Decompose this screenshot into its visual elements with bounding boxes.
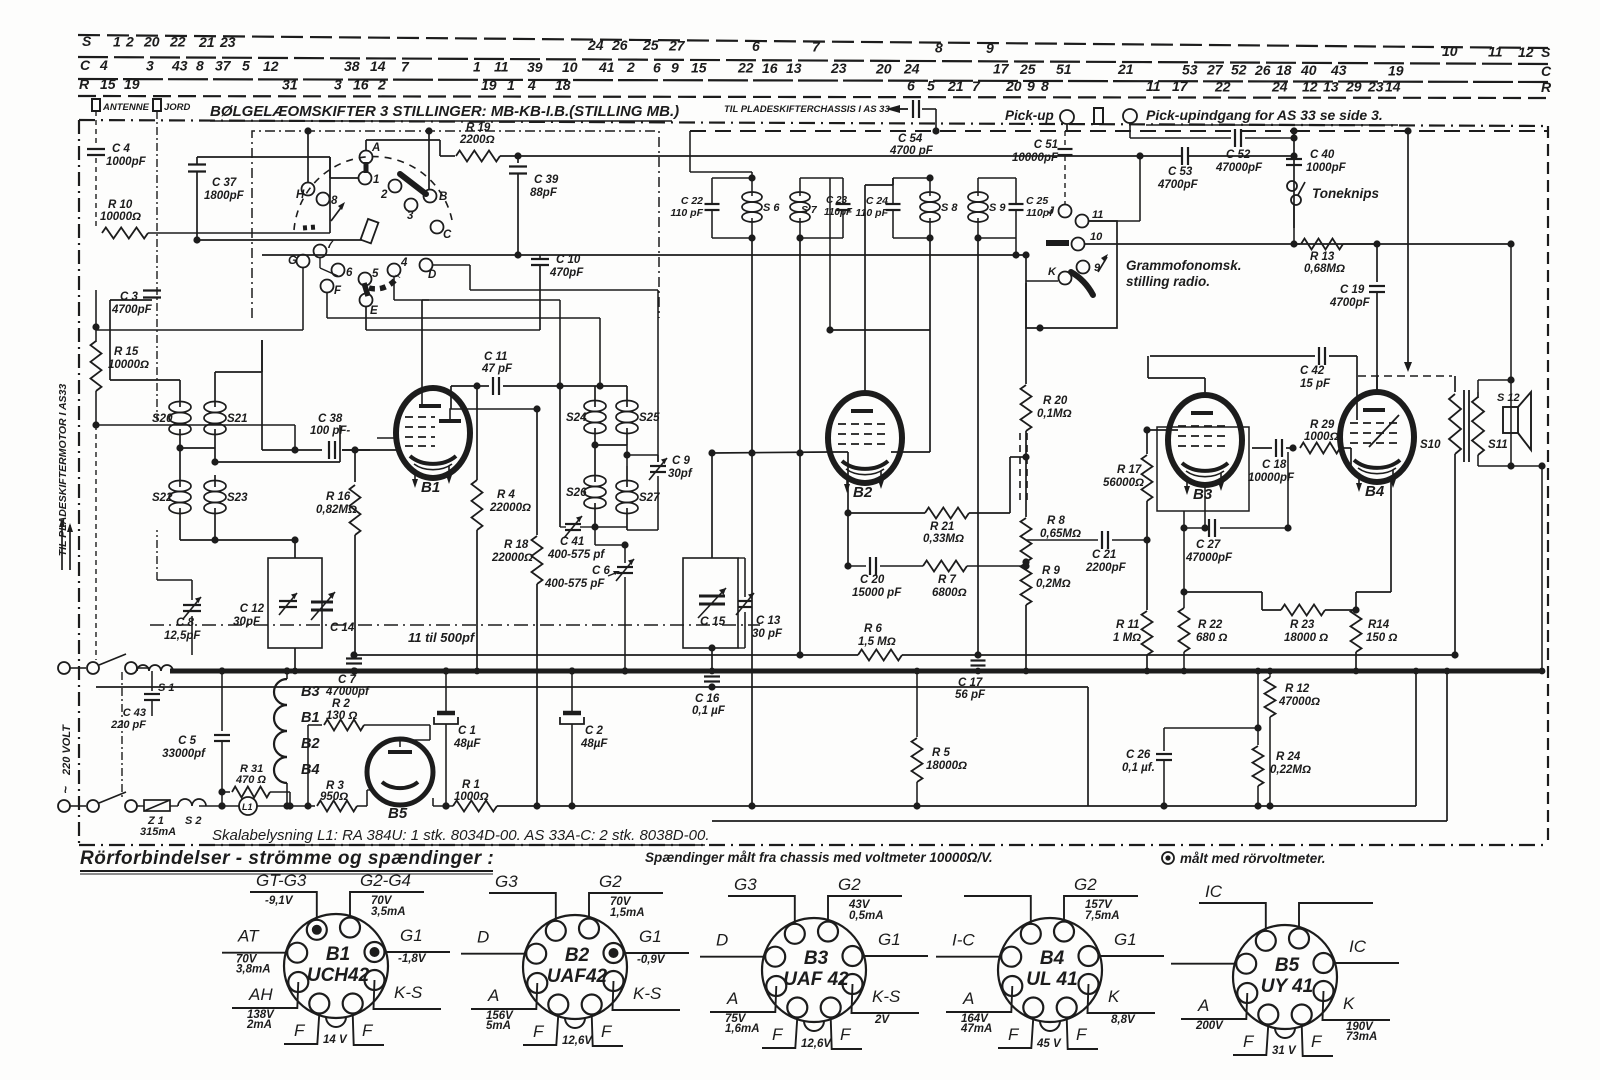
svg-text:R 2: R 2 <box>332 698 351 710</box>
svg-text:G: G <box>288 255 297 267</box>
svg-text:4700pF: 4700pF <box>111 304 153 316</box>
svg-text:F: F <box>1076 1025 1088 1044</box>
svg-text:52: 52 <box>1231 62 1247 78</box>
svg-text:22: 22 <box>1214 78 1231 94</box>
svg-text:14: 14 <box>370 58 386 74</box>
capacitor C17 <box>955 661 986 702</box>
svg-text:F: F <box>1311 1032 1323 1051</box>
capacitor C14 variable <box>311 592 355 634</box>
coil S22 <box>152 475 191 540</box>
svg-text:25: 25 <box>1019 61 1036 77</box>
note voltmeter <box>645 850 993 865</box>
wire heater chain <box>283 667 290 809</box>
resistor R2 <box>304 698 430 810</box>
svg-text:25: 25 <box>642 37 659 53</box>
svg-text:Pick-up: Pick-up <box>1005 108 1054 123</box>
gram switch contact J <box>1048 205 1072 218</box>
wire S22 top <box>179 448 181 475</box>
svg-text:R 9: R 9 <box>1042 565 1061 577</box>
svg-text:2V: 2V <box>874 1014 890 1026</box>
svg-text:stilling radio.: stilling radio. <box>1126 274 1210 289</box>
svg-text:6: 6 <box>907 78 915 94</box>
capacitor C52 <box>1158 129 1298 174</box>
capacitor C39 <box>509 156 559 199</box>
svg-text:1 MΩ: 1 MΩ <box>1113 632 1141 644</box>
svg-text:56000Ω: 56000Ω <box>1103 477 1144 489</box>
wire C52 vert <box>1290 127 1297 228</box>
svg-text:2: 2 <box>626 59 635 75</box>
node R15 top <box>92 323 99 330</box>
svg-text:R 4: R 4 <box>497 489 516 501</box>
svg-text:R 24: R 24 <box>1276 751 1301 763</box>
capacitor C7 <box>325 659 370 699</box>
resistor R15 <box>91 341 149 391</box>
svg-text:1,6mA: 1,6mA <box>725 1023 760 1035</box>
svg-text:E: E <box>370 305 378 317</box>
wire S26 bottom to bus <box>595 527 625 545</box>
wire S9 box <box>974 178 1016 242</box>
svg-text:1: 1 <box>113 33 121 49</box>
fuse Z1 <box>140 800 178 838</box>
capacitor C37 <box>188 165 245 203</box>
svg-text:R 21: R 21 <box>930 521 954 533</box>
tube B1 <box>396 388 470 496</box>
svg-text:R 22: R 22 <box>1198 619 1223 631</box>
svg-text:10000pF: 10000pF <box>1012 152 1059 164</box>
wire speaker leads <box>1478 244 1515 466</box>
title wave switch <box>210 103 679 121</box>
svg-text:19: 19 <box>124 76 140 92</box>
capacitor C41 trimmer <box>547 516 605 561</box>
svg-text:23: 23 <box>219 34 236 50</box>
svg-text:D: D <box>716 931 728 950</box>
svg-text:2200pF: 2200pF <box>1085 562 1127 574</box>
svg-text:21: 21 <box>1117 61 1134 77</box>
svg-text:3: 3 <box>146 57 154 73</box>
heater arc B2 <box>274 731 320 757</box>
capacitor C1 <box>434 667 481 809</box>
node B2 cath junction <box>844 562 851 569</box>
wave switch rotor rect <box>361 219 379 243</box>
svg-text:C 18: C 18 <box>1262 459 1287 471</box>
svg-text:G2-G4: G2-G4 <box>360 871 411 890</box>
svg-text:K-S: K-S <box>872 987 901 1006</box>
svg-text:TIL PLADESKIFTERMOTOR I AS33: TIL PLADESKIFTERMOTOR I AS33 <box>57 384 69 557</box>
svg-text:200V: 200V <box>1195 1020 1224 1032</box>
gram switch contact 10 <box>1072 231 1104 251</box>
resistor R22 <box>1179 511 1228 671</box>
svg-text:9: 9 <box>986 40 994 56</box>
capacitor C6 trimmer <box>544 559 634 590</box>
svg-text:G1: G1 <box>1114 930 1137 949</box>
heater arc B3 <box>274 679 320 705</box>
node gram bottom <box>1036 324 1043 331</box>
svg-text:12: 12 <box>1518 44 1534 60</box>
svg-text:6: 6 <box>752 38 760 54</box>
svg-text:7,5mA: 7,5mA <box>1085 910 1120 922</box>
wire S25 top <box>560 386 627 527</box>
svg-text:43: 43 <box>1330 62 1347 78</box>
svg-text:31 V: 31 V <box>1272 1045 1297 1057</box>
svg-text:B3: B3 <box>804 948 829 969</box>
svg-text:220 pF: 220 pF <box>110 719 146 731</box>
svg-text:3,8mA: 3,8mA <box>236 964 271 976</box>
gram switch contact 11 <box>1076 209 1104 228</box>
wire B4 cath down <box>1356 478 1391 592</box>
svg-text:S 8: S 8 <box>941 202 958 214</box>
tube socket B2 UAF42 <box>461 872 689 1047</box>
svg-text:Toneknips: Toneknips <box>1312 186 1379 201</box>
toneknips switch <box>1287 181 1379 205</box>
svg-text:S 7: S 7 <box>801 204 818 216</box>
svg-text:GT-G3: GT-G3 <box>256 871 307 890</box>
svg-text:C 39: C 39 <box>534 174 559 186</box>
svg-text:C 11: C 11 <box>484 351 507 363</box>
capacitor C20 <box>848 513 923 599</box>
svg-text:110 pF: 110 pF <box>671 207 704 219</box>
svg-text:19: 19 <box>1388 62 1404 78</box>
svg-text:1000pF: 1000pF <box>1306 162 1347 174</box>
svg-text:110pF: 110pF <box>824 207 853 218</box>
svg-text:S: S <box>82 33 92 49</box>
wire pickup branch down <box>1130 123 1158 138</box>
svg-text:5: 5 <box>927 78 935 94</box>
svg-text:8: 8 <box>935 39 943 55</box>
svg-text:H: H <box>296 189 305 201</box>
svg-text:1: 1 <box>473 59 481 75</box>
svg-text:UCH42: UCH42 <box>307 965 370 986</box>
wave switch rotor bar A-1 <box>364 162 369 173</box>
svg-text:7: 7 <box>972 78 981 94</box>
capacitor C16 <box>692 677 726 718</box>
wire C41 bus <box>560 523 627 530</box>
capacitor C18 <box>1248 439 1297 484</box>
pickup plug symbol <box>1094 108 1103 124</box>
svg-text:45 V: 45 V <box>1036 1038 1062 1050</box>
wire B4 anode up <box>1376 376 1378 392</box>
capacitor C23 <box>824 178 853 238</box>
chassis border left <box>78 120 80 845</box>
svg-text:UL 41: UL 41 <box>1026 969 1077 990</box>
svg-text:B2: B2 <box>565 945 590 966</box>
svg-text:B5: B5 <box>1275 955 1300 976</box>
antenna terminal <box>92 99 150 113</box>
svg-text:C 5: C 5 <box>178 735 197 747</box>
wire S20 top <box>110 300 180 395</box>
svg-text:C 14: C 14 <box>330 622 355 634</box>
mains plug top <box>58 662 99 674</box>
svg-text:3: 3 <box>407 210 414 222</box>
svg-text:R 18: R 18 <box>504 539 529 551</box>
coil S27 <box>616 466 660 530</box>
svg-text:C 9: C 9 <box>672 455 691 467</box>
wire pickup dashed bus <box>690 130 1294 132</box>
svg-text:12,6V: 12,6V <box>562 1035 593 1047</box>
wire bottom rail2 <box>712 673 1447 821</box>
tuning box C12 C14 <box>268 558 322 648</box>
label 11 til 500pf <box>408 630 476 645</box>
svg-text:C 51: C 51 <box>1034 139 1058 151</box>
wire top right vert <box>1404 127 1412 372</box>
dial scale row C numbers <box>80 57 1552 79</box>
svg-text:7: 7 <box>812 38 821 54</box>
svg-text:F: F <box>334 285 342 297</box>
resistor R16 <box>316 450 361 656</box>
svg-text:1,5mA: 1,5mA <box>610 907 645 919</box>
lamp L1 <box>239 797 257 815</box>
svg-text:R 29: R 29 <box>1310 419 1335 431</box>
wire S11 to border <box>1478 455 1546 671</box>
svg-text:B4: B4 <box>1040 948 1065 969</box>
svg-text:0,22MΩ: 0,22MΩ <box>1270 764 1311 776</box>
svg-text:BØLGELÆOMSKIFTER 3 STILLINGER:: BØLGELÆOMSKIFTER 3 STILLINGER: MB-KB-I.B… <box>210 103 679 120</box>
svg-text:47000pf: 47000pf <box>325 686 370 698</box>
svg-text:C: C <box>80 57 91 73</box>
wire 11 right <box>1089 152 1144 221</box>
capacitor C15 variable <box>698 588 726 628</box>
svg-text:9: 9 <box>671 59 679 75</box>
svg-text:12: 12 <box>1302 78 1318 94</box>
wire S7 box <box>796 178 843 242</box>
wire R19 to C39 <box>500 152 1181 159</box>
heading rorforbindelser <box>80 848 494 874</box>
wire 10 right <box>1085 240 1515 247</box>
svg-text:29: 29 <box>1345 79 1362 95</box>
wire C10 bus <box>262 254 1026 256</box>
resistor R3 <box>308 780 367 812</box>
arrow up pladeskiftermotor <box>59 518 73 570</box>
svg-text:21: 21 <box>198 34 215 50</box>
svg-text:S20: S20 <box>152 413 173 425</box>
tube B3 <box>1168 395 1242 503</box>
capacitor C22 <box>671 178 720 238</box>
wire S8 bottom drop <box>929 238 931 330</box>
svg-text:47 pF: 47 pF <box>481 363 513 375</box>
capacitor C9 trimmer <box>649 455 693 480</box>
svg-text:F: F <box>533 1022 545 1041</box>
svg-text:315mA: 315mA <box>140 826 176 838</box>
wire B2 grid <box>712 452 829 453</box>
svg-text:950Ω: 950Ω <box>320 791 348 803</box>
svg-text:Skalabelysning L1: RA 384U: 1: Skalabelysning L1: RA 384U: 1 stk. 8034D… <box>212 827 710 844</box>
svg-text:4700pF: 4700pF <box>1329 297 1371 309</box>
wire S8 box <box>893 174 934 241</box>
dial scale ruler line 1 <box>78 35 1548 48</box>
svg-text:ANTENNE: ANTENNE <box>102 102 150 113</box>
gram rotor bar <box>1046 240 1069 246</box>
coil S1 <box>137 665 175 694</box>
resistor R17 <box>1103 426 1153 540</box>
capacitor C24 <box>856 178 901 238</box>
svg-text:D: D <box>428 269 436 281</box>
svg-text:Pick-upindgang for AS 33 se si: Pick-upindgang for AS 33 se side 3. <box>1146 107 1383 123</box>
gram rotor wedge <box>1071 272 1093 295</box>
svg-text:14 V: 14 V <box>323 1034 348 1046</box>
svg-text:B: B <box>439 191 447 203</box>
wire B1 grid left <box>377 437 397 439</box>
svg-text:A: A <box>487 986 499 1005</box>
resistor R21 <box>848 453 1030 545</box>
resistor R19 <box>456 122 500 162</box>
node S24 bottom <box>591 441 627 448</box>
svg-text:R 6: R 6 <box>864 623 883 635</box>
coil S6 <box>742 178 780 238</box>
svg-text:26: 26 <box>611 37 628 53</box>
mains plug bottom <box>58 800 99 812</box>
svg-text:6800Ω: 6800Ω <box>932 587 967 599</box>
coil S2 <box>178 799 206 827</box>
svg-text:C 10: C 10 <box>556 254 581 266</box>
svg-text:9: 9 <box>1027 78 1035 94</box>
svg-text:0,1 µf.: 0,1 µf. <box>1122 762 1155 774</box>
svg-text:24: 24 <box>903 60 920 76</box>
svg-text:7: 7 <box>401 58 410 74</box>
resistor R1 <box>453 779 497 812</box>
svg-text:4: 4 <box>527 77 536 93</box>
coil S7 <box>790 178 818 238</box>
gram switch contact K <box>1048 266 1072 285</box>
chassis border right <box>1547 126 1549 845</box>
pickup jack <box>1060 110 1074 131</box>
svg-text:K: K <box>1108 987 1120 1006</box>
label til pladeskiftermotor <box>57 384 69 557</box>
svg-text:Spændinger målt fra chassis: Spændinger målt fra chassis med voltmete… <box>645 850 993 865</box>
svg-text:6: 6 <box>653 59 661 75</box>
svg-text:47000pF: 47000pF <box>1185 552 1233 564</box>
wave switch contact labels <box>288 142 452 317</box>
svg-text:88pF: 88pF <box>530 187 558 199</box>
svg-text:Rörforbindelser - strömme og: Rörforbindelser - strömme og spændinger … <box>80 848 494 869</box>
gram switch box <box>1026 221 1117 328</box>
wire tuning box bottom <box>294 648 296 671</box>
svg-text:0,68MΩ: 0,68MΩ <box>1304 263 1345 275</box>
svg-text:~: ~ <box>58 786 73 794</box>
svg-text:21: 21 <box>947 78 964 94</box>
svg-text:UAF42: UAF42 <box>547 966 608 987</box>
svg-text:6: 6 <box>346 267 353 279</box>
wire B3 grid left <box>1147 429 1178 431</box>
svg-text:13: 13 <box>786 60 802 76</box>
svg-text:1800pF: 1800pF <box>204 190 245 202</box>
svg-text:17: 17 <box>1172 78 1189 94</box>
svg-text:A: A <box>726 989 738 1008</box>
svg-text:G1: G1 <box>878 930 901 949</box>
coil S8 <box>920 178 958 238</box>
tube B5 <box>367 739 433 822</box>
svg-text:26: 26 <box>1254 62 1271 78</box>
pickup jack 2 <box>1123 109 1137 123</box>
svg-text:2mA: 2mA <box>246 1019 272 1031</box>
svg-text:73mA: 73mA <box>1346 1031 1377 1043</box>
svg-text:R 15: R 15 <box>114 346 139 358</box>
mains switch bottom <box>99 792 140 812</box>
tube socket B3 UAF42 <box>700 875 928 1050</box>
node S23 top <box>211 425 340 466</box>
wire C37 top <box>197 157 330 233</box>
svg-text:20: 20 <box>143 33 160 49</box>
svg-text:C 25: C 25 <box>1026 195 1048 207</box>
capacitor C42 <box>1148 347 1357 420</box>
svg-text:R: R <box>79 76 90 92</box>
wire output dashed <box>1358 375 1452 377</box>
label 220 volt <box>58 724 73 794</box>
svg-text:2: 2 <box>380 189 388 201</box>
coil S21 <box>204 395 247 462</box>
chassis border top <box>79 120 1548 126</box>
capacitor C43 <box>110 671 160 731</box>
tube B4 <box>1340 392 1414 500</box>
svg-text:30pf: 30pf <box>668 468 693 480</box>
svg-text:24: 24 <box>587 37 604 53</box>
svg-text:F: F <box>1243 1032 1255 1051</box>
svg-text:S11: S11 <box>1488 439 1508 451</box>
wire antenna lead <box>95 111 97 146</box>
svg-text:A: A <box>371 142 380 154</box>
wave switch shield box <box>252 131 659 318</box>
svg-text:22: 22 <box>169 34 186 50</box>
svg-text:2: 2 <box>125 33 134 49</box>
svg-text:D: D <box>477 928 489 947</box>
dial scale ruler line 2 <box>78 57 1548 64</box>
svg-text:R 11: R 11 <box>1116 619 1139 631</box>
svg-text:10: 10 <box>1090 231 1103 243</box>
svg-text:22: 22 <box>737 60 754 76</box>
node S20 S21 junction <box>176 444 215 451</box>
svg-text:39: 39 <box>527 59 543 75</box>
wave switch rotor dash small <box>303 227 316 228</box>
svg-text:41: 41 <box>598 59 615 75</box>
wire jord lead <box>156 111 158 420</box>
resistor R6 <box>858 623 902 661</box>
svg-text:8: 8 <box>331 195 338 207</box>
label til pladeskifterchassis <box>724 104 890 115</box>
svg-text:C 22: C 22 <box>681 195 703 207</box>
svg-text:C 4: C 4 <box>112 143 131 155</box>
resistor R8 <box>1021 431 1081 562</box>
svg-text:17: 17 <box>993 61 1010 77</box>
svg-text:G1: G1 <box>400 926 423 945</box>
svg-text:S22: S22 <box>152 492 173 504</box>
wire B3 anode <box>1148 378 1205 392</box>
wire C15 top <box>708 449 715 558</box>
wire pickup bus right <box>1294 130 1548 132</box>
wire toneknips down <box>1290 205 1297 248</box>
wire S6 box <box>712 174 756 241</box>
svg-text:13: 13 <box>1323 79 1339 95</box>
svg-text:C 53: C 53 <box>1168 166 1193 178</box>
wire C4 to R15 <box>95 290 97 342</box>
svg-text:56 pF: 56 pF <box>955 689 986 701</box>
svg-text:G3: G3 <box>495 872 518 891</box>
wire R15 bottom <box>92 391 295 660</box>
wave switch rotor bar E <box>364 283 368 296</box>
wire C11 link <box>451 382 481 409</box>
wire B1 triode anode out <box>467 405 541 412</box>
svg-text:5: 5 <box>372 268 379 280</box>
svg-text:3: 3 <box>334 77 342 93</box>
wire B4 grid <box>1350 448 1352 470</box>
svg-text:A: A <box>1197 996 1209 1015</box>
wire B5 cath <box>367 790 372 806</box>
svg-text:J: J <box>1048 205 1055 217</box>
svg-text:C 52: C 52 <box>1226 149 1251 161</box>
svg-text:11: 11 <box>1488 44 1503 60</box>
speaker S12 <box>1497 392 1531 450</box>
svg-text:19: 19 <box>481 77 497 93</box>
chassis border bottom <box>79 844 1548 846</box>
svg-text:23: 23 <box>830 60 847 76</box>
svg-text:B3: B3 <box>301 684 320 700</box>
